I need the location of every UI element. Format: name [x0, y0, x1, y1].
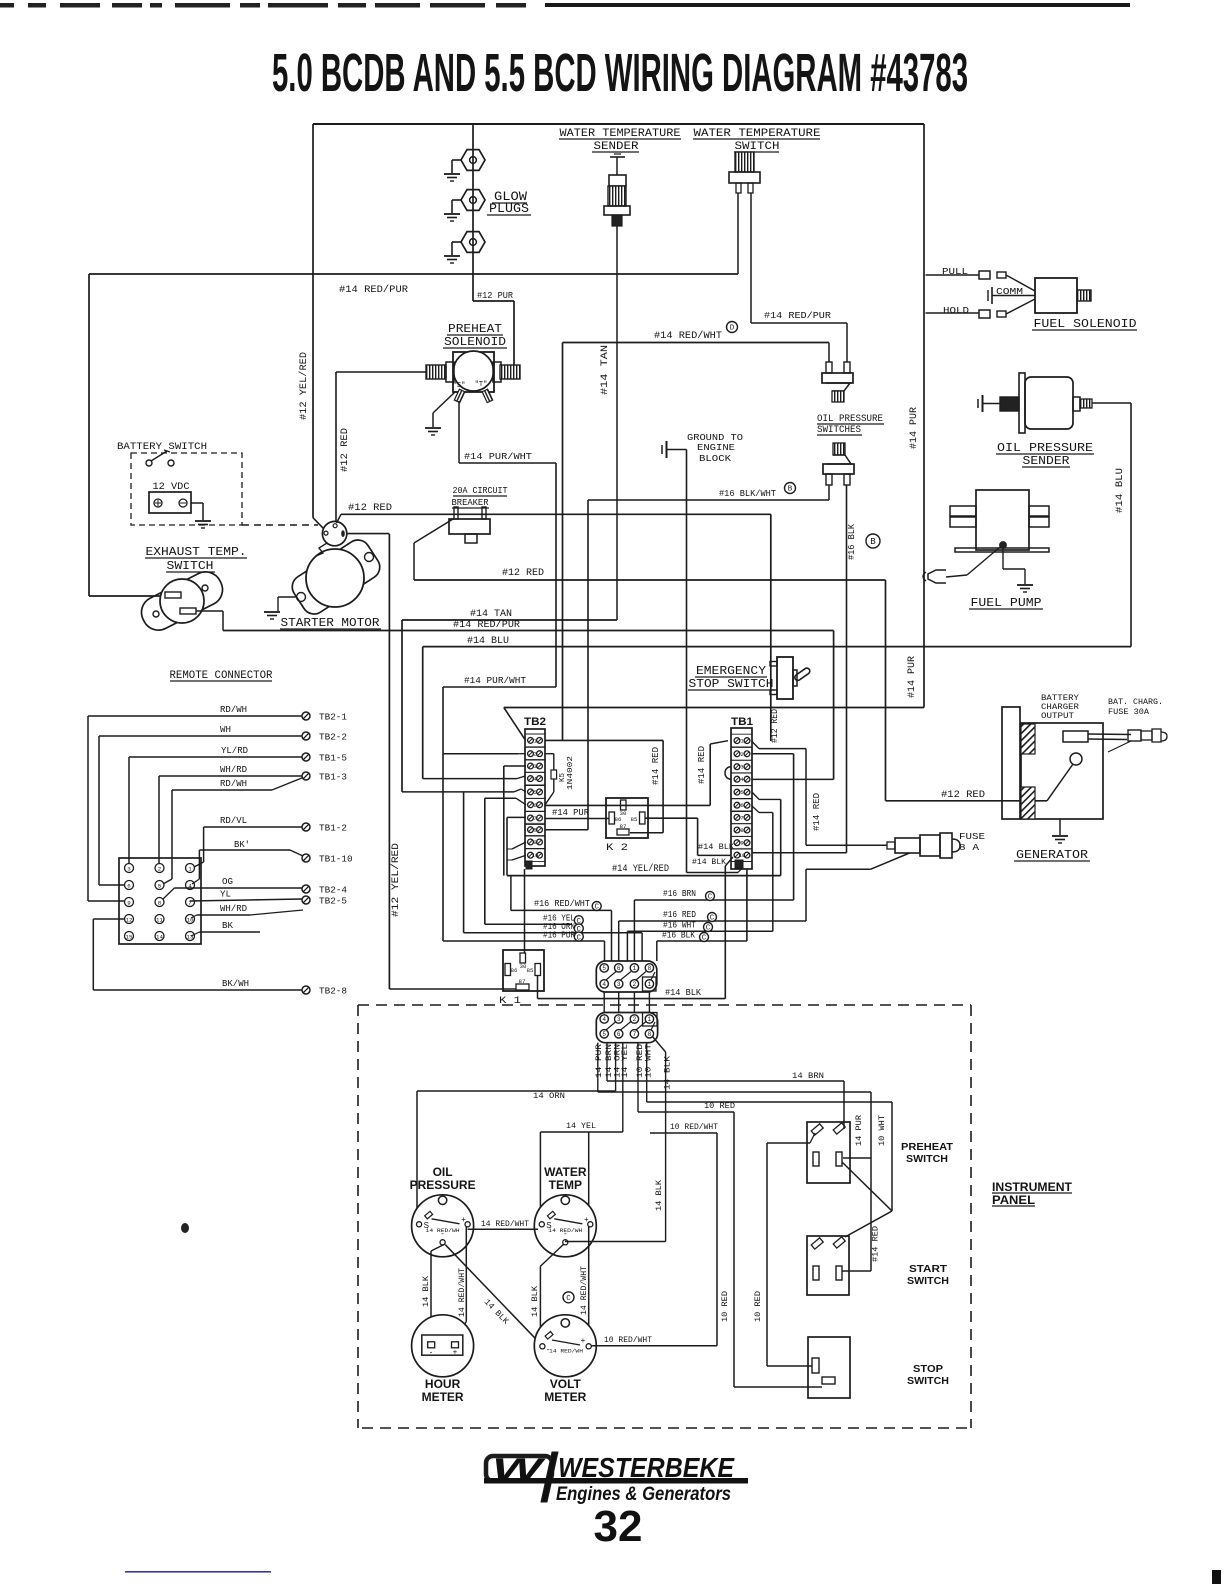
svg-text:86: 86: [615, 816, 622, 823]
wire TB2-6 to TB1-1 (through K2-30): [545, 741, 728, 806]
svg-text:14 ORN: 14 ORN: [533, 1091, 565, 1101]
svg-text:7: 7: [533, 815, 536, 822]
wire #14 BLU (sender lead): [1092, 403, 1131, 647]
wire #12 RED (starter to breaker to TB1-1): [337, 503, 781, 743]
wire WH (TB2-2): [99, 725, 302, 885]
svg-text:#14 RED: #14 RED: [697, 746, 707, 784]
wire 10 RED to stop switch: [638, 1101, 822, 1387]
wire #14 PUR TB2-7 to K2-86: [545, 807, 609, 819]
svg-text:HOUR: HOUR: [425, 1377, 461, 1391]
svg-text:SWITCH: SWITCH: [906, 1153, 948, 1165]
svg-text:85: 85: [631, 816, 638, 823]
svg-text:BLOCK: BLOCK: [699, 453, 731, 464]
wires connector pass-through: [604, 992, 649, 1013]
water temp gauge: [534, 1165, 596, 1257]
svg-text:#14 YEL/RED: #14 YEL/RED: [612, 863, 669, 875]
svg-text:10 RED: 10 RED: [704, 1101, 735, 1111]
svg-text:10 RED: 10 RED: [753, 1291, 763, 1322]
wire #14 RED/WHT: [563, 322, 830, 741]
svg-text:14 RED/WHT: 14 RED/WHT: [481, 1219, 529, 1229]
wire #14 BLU: [423, 636, 1131, 779]
svg-text:STOP: STOP: [913, 1363, 943, 1375]
wire #14 RED/PUR top (y=274): [89, 274, 738, 296]
svg-text:C: C: [710, 915, 715, 923]
svg-text:14 BLK: 14 BLK: [663, 1055, 673, 1090]
wire #16 WHT: [627, 806, 772, 961]
svg-text:METER: METER: [422, 1390, 464, 1404]
remote connector: [119, 670, 273, 944]
svg-text:TB1: TB1: [731, 716, 753, 728]
wire TB2-7 down (#14 YEL/RED feed): [507, 817, 526, 875]
svg-text:4: 4: [602, 981, 606, 988]
svg-text:#12 RED: #12 RED: [348, 503, 392, 514]
emergency stop switch: [688, 657, 811, 699]
svg-text:FUSE: FUSE: [959, 831, 985, 842]
wire #16 YEL: [485, 913, 584, 926]
svg-text:TB2-5: TB2-5: [319, 897, 347, 907]
svg-text:METER: METER: [544, 1390, 586, 1404]
svg-text:SWITCH: SWITCH: [907, 1275, 949, 1287]
Westerbeke logo: [484, 1452, 748, 1505]
svg-text:9: 9: [127, 899, 131, 906]
wire #12 RED (y=580 run to generator): [414, 568, 1047, 801]
wire #14 PUR/WHT drop to TB2-2: [443, 687, 525, 941]
svg-text:TB1-2: TB1-2: [319, 824, 347, 834]
wire #14 RED label: [871, 1226, 881, 1262]
wire TB2-3 stub down: [504, 766, 526, 876]
wire #14 RED/PUR (y=630.5): [223, 619, 834, 779]
svg-text:B: B: [870, 537, 876, 547]
fuel pump: [923, 490, 1049, 610]
wire #14 RED/PUR (water temp switch to oil pressure switch): [751, 193, 847, 362]
exhaust temperature switch: [136, 546, 247, 636]
wire #16 ORN: [464, 921, 642, 961]
svg-text:+: +: [461, 1215, 466, 1224]
svg-text:RD/WH: RD/WH: [220, 705, 247, 715]
svg-text:D: D: [730, 325, 735, 333]
svg-text:#14 PUR: #14 PUR: [909, 407, 920, 449]
wire #12 RED (preheat stub to starter): [336, 372, 426, 524]
wire K1-30 up (from TB2 bottom stub): [524, 869, 526, 953]
svg-text:#12 YEL/RED: #12 YEL/RED: [298, 352, 310, 420]
svg-text:#12 RED: #12 RED: [340, 428, 351, 472]
svg-text:20A CIRCUIT: 20A CIRCUIT: [453, 485, 508, 496]
wire engine harness top edge (y=124): [313, 123, 924, 125]
wire TB1-4 from #14 RED/PUR: [752, 778, 834, 780]
svg-text:PREHEAT: PREHEAT: [448, 323, 502, 336]
oil pressure switches: [817, 362, 884, 485]
svg-text:OIL PRESSURE: OIL PRESSURE: [997, 442, 1093, 455]
wire YL/RD (TB1-5): [129, 746, 302, 863]
glow plugs: [444, 124, 531, 301]
wire 14 YEL: [540, 1121, 622, 1219]
svg-text:#14 BLU: #14 BLU: [467, 636, 509, 647]
svg-text:GENERATOR: GENERATOR: [1016, 848, 1088, 862]
svg-text:14 BLK: 14 BLK: [654, 1179, 664, 1211]
scan artifact: torn top edge marks: [0, 3, 1130, 8]
svg-text:#14 RED: #14 RED: [812, 793, 822, 831]
svg-text:5.0 BCDB AND 5.5 BCD WIRING DI: 5.0 BCDB AND 5.5 BCD WIRING DIAGRAM #437…: [272, 43, 968, 103]
svg-text:32: 32: [594, 1502, 643, 1551]
svg-text:3: 3: [533, 763, 536, 770]
svg-text:#14 RED: #14 RED: [651, 747, 661, 785]
svg-text:SWITCH: SWITCH: [907, 1375, 949, 1387]
instrument panel connector leads: [594, 1036, 673, 1242]
wire TB2-1 bus to K2-87 drop: [504, 708, 663, 741]
svg-text:14 YEL: 14 YEL: [566, 1121, 596, 1131]
svg-text:REMOTE CONNECTOR: REMOTE CONNECTOR: [170, 670, 274, 682]
svg-text:#12 RED: #12 RED: [502, 568, 544, 579]
svg-text:6: 6: [533, 802, 536, 809]
svg-text:WH/RD: WH/RD: [220, 904, 247, 914]
wire WH/RD (to pin 10): [191, 904, 303, 918]
svg-text:2: 2: [533, 751, 536, 758]
wire RD/WH (to pin 5): [163, 778, 303, 885]
svg-text:START: START: [909, 1263, 948, 1275]
wire #12 RED starter solenoid branch: [346, 533, 389, 535]
svg-text:K5: K5: [559, 772, 567, 782]
svg-text:+: +: [584, 1215, 589, 1224]
svg-text:Engines & Generators: Engines & Generators: [556, 1484, 731, 1505]
svg-text:14 BLK: 14 BLK: [421, 1275, 431, 1307]
svg-text:OG: OG: [222, 877, 233, 887]
terminal block TB2: [524, 716, 546, 869]
wire BK' (TB1-10): [192, 840, 303, 884]
remote connector terminal screws: [302, 712, 353, 997]
svg-text:C: C: [706, 925, 711, 933]
svg-text:5: 5: [602, 1031, 606, 1038]
wire start switch to #14 RED: [842, 1270, 871, 1272]
wire #14 TAN to TB2-5: [402, 789, 526, 792]
svg-text:8: 8: [648, 1031, 652, 1038]
svg-text:FUEL PUMP: FUEL PUMP: [971, 597, 1042, 610]
svg-text:14 RED/WH: 14 RED/WH: [549, 1348, 583, 1355]
svg-text:#14 TAN: #14 TAN: [600, 345, 611, 395]
svg-text:WATER: WATER: [544, 1165, 587, 1179]
fuse 8A: [806, 831, 985, 921]
svg-text:YL/RD: YL/RD: [221, 746, 248, 756]
svg-text:PANEL: PANEL: [992, 1195, 1035, 1207]
wire RD/VL (TB1-2): [194, 816, 302, 867]
wire #16 YEL branch TB2-6: [485, 798, 526, 924]
svg-text:#16 BRN: #16 BRN: [663, 888, 696, 899]
svg-text:1: 1: [648, 981, 652, 988]
svg-text:8 A: 8 A: [959, 842, 979, 853]
ground to engine block: [662, 432, 743, 464]
svg-text:2: 2: [633, 981, 637, 988]
wire TB1-1 to fuse 8A: [752, 742, 822, 846]
svg-text:C: C: [702, 935, 707, 943]
wire #12 YEL/RED left edge (x=313): [298, 124, 326, 531]
svg-text:TB2-2: TB2-2: [319, 733, 347, 743]
svg-text:#14 RED/PUR: #14 RED/PUR: [453, 619, 520, 631]
svg-text:PLUGS: PLUGS: [489, 202, 529, 216]
relay K1: [499, 950, 544, 1007]
svg-text:14 YEL: 14 YEL: [620, 1044, 630, 1078]
wire #16 BLK (oil switch to TB1-10): [847, 485, 881, 853]
wire 14 BLK diagonal to volt meter: [445, 1245, 542, 1346]
svg-text:10 RED: 10 RED: [720, 1291, 730, 1322]
svg-text:#16 RED: #16 RED: [663, 909, 696, 920]
svg-text:#14 RED/WHT: #14 RED/WHT: [654, 330, 722, 342]
svg-text:OIL: OIL: [433, 1165, 453, 1179]
wire 14 BRN: [607, 1071, 844, 1129]
svg-text:#14 PUR: #14 PUR: [907, 656, 918, 698]
wire OG (TB2-4): [163, 877, 302, 899]
wire #16 RED/WHT: [511, 876, 612, 961]
wire #14 PUR/WHT jog: [443, 451, 556, 687]
wire #16 PUR: [443, 929, 604, 961]
wire #16 RED: [619, 909, 806, 961]
svg-text:7: 7: [633, 1031, 637, 1038]
connector (instrument panel side): [596, 1013, 657, 1043]
scan artifact: stray dot left margin: [181, 1223, 189, 1233]
svg-text:SENDER: SENDER: [1023, 455, 1070, 468]
svg-text:TEMP: TEMP: [549, 1178, 582, 1192]
svg-text:6: 6: [740, 802, 743, 809]
wire preheat S to #14 PUR/WHT: [458, 401, 460, 463]
svg-text:SOLENOID: SOLENOID: [444, 336, 506, 349]
wire BK/WH (TB2-8): [93, 919, 302, 990]
scan artifact: bottom-right black bar: [1212, 1570, 1221, 1584]
wire #14 PUR (fuel solenoid feed / right edge): [909, 124, 924, 708]
diode K5 1N4002: [545, 754, 575, 805]
oil pressure gauge: [410, 1165, 476, 1257]
svg-text:14 PUR: 14 PUR: [854, 1115, 864, 1146]
svg-text:B: B: [788, 486, 793, 494]
svg-text:8: 8: [648, 965, 652, 972]
svg-text:-: -: [430, 1348, 433, 1357]
svg-text:#12 YEL/RED: #12 YEL/RED: [390, 843, 402, 917]
wire #12 YEL/RED to K1: [389, 534, 516, 989]
instrument panel dashed border: [358, 1005, 971, 1428]
terminal block TB1: [725, 716, 753, 869]
page number 32: [594, 1502, 643, 1551]
wire #14 BLK (K1-85 to TB1): [538, 976, 726, 999]
svg-text:14 BLK: 14 BLK: [530, 1285, 540, 1317]
svg-text:85: 85: [527, 967, 534, 974]
svg-text:8: 8: [740, 827, 743, 834]
preheat switch: [807, 1122, 954, 1183]
hour meter: [412, 1315, 474, 1404]
svg-text:#16 BLK/WHT: #16 BLK/WHT: [719, 488, 776, 499]
wire #16 BRN: [634, 888, 793, 961]
wire #16 ORN branch: [463, 792, 465, 933]
svg-text:#16 BLK: #16 BLK: [847, 523, 857, 560]
svg-text:PRESSURE: PRESSURE: [410, 1178, 476, 1192]
wire 14 PUR to preheat switch: [598, 1092, 871, 1271]
svg-text:C: C: [708, 894, 713, 902]
water temperature switch: [693, 128, 821, 193]
wire 14 RED/WHT oil to hour meter: [455, 1226, 467, 1339]
svg-text:SENDER: SENDER: [594, 141, 639, 153]
wire left boundary to exhaust switch: [89, 274, 162, 596]
svg-text:TB1-10: TB1-10: [319, 855, 353, 865]
wire YL (TB2-5): [190, 890, 302, 902]
svg-text:#14 PUR/WHT: #14 PUR/WHT: [464, 675, 526, 686]
wire BK (pin 13): [191, 921, 260, 936]
water temperature sender: [559, 128, 681, 226]
svg-text:+: +: [581, 1336, 586, 1345]
svg-text:TB2-8: TB2-8: [319, 987, 347, 997]
svg-text:SWITCH: SWITCH: [735, 141, 780, 153]
svg-text:#14 TAN: #14 TAN: [470, 609, 512, 620]
svg-text:WATER TEMPERATURE: WATER TEMPERATURE: [694, 128, 821, 140]
svg-text:TB1-5: TB1-5: [319, 754, 347, 764]
wire RD/WH (TB2-1): [88, 705, 302, 901]
svg-text:10: 10: [532, 852, 539, 859]
svg-text:TB1-3: TB1-3: [319, 773, 347, 783]
wire 10 RED/WHT upper: [650, 1122, 718, 1346]
svg-text:3: 3: [127, 865, 131, 872]
wire TB1-10 from #16 BLK: [752, 852, 847, 854]
starter motor: [264, 521, 384, 630]
wire #14 PUR (fuel pump to TB2-1 bus): [504, 656, 924, 708]
svg-text:5: 5: [602, 965, 606, 972]
svg-text:#16 PUR: #16 PUR: [543, 929, 575, 940]
svg-text:2: 2: [740, 751, 743, 758]
svg-text:7: 7: [740, 814, 743, 821]
svg-text:STARTER MOTOR: STARTER MOTOR: [281, 617, 380, 630]
svg-text:1: 1: [188, 865, 192, 872]
wire #16 BLK: [657, 930, 747, 962]
svg-text:12: 12: [126, 916, 133, 923]
svg-text:VOLT: VOLT: [550, 1377, 582, 1391]
wire #14 YEL/RED: [507, 863, 781, 876]
svg-text:6: 6: [127, 882, 131, 889]
wire TB1-5 to #14 YEL/RED: [752, 792, 781, 876]
svg-text:2: 2: [633, 1016, 637, 1023]
wire 14 ORN: [417, 1091, 616, 1219]
svg-text:TB2-4: TB2-4: [319, 886, 347, 896]
svg-text:1N4002: 1N4002: [567, 756, 575, 790]
svg-text:11: 11: [156, 916, 163, 923]
wire 10 RED (second drop): [753, 1133, 815, 1366]
svg-text:3: 3: [617, 1016, 621, 1023]
svg-text:14 RED/WHT: 14 RED/WHT: [457, 1268, 467, 1317]
svg-text:10 RED/WHT: 10 RED/WHT: [670, 1122, 718, 1132]
svg-text:15: 15: [126, 933, 133, 940]
wire 14 RED/WHT between gauges: [468, 1219, 538, 1229]
svg-text:14 PUR: 14 PUR: [594, 1044, 604, 1078]
svg-text:#16 BLK: #16 BLK: [662, 930, 695, 941]
svg-text:14 RED/WH: 14 RED/WH: [548, 1227, 582, 1234]
svg-text:#14 BLU: #14 BLU: [1115, 468, 1126, 513]
svg-text:BK: BK: [222, 921, 234, 931]
svg-text:#14 BLK: #14 BLK: [698, 842, 735, 852]
wire #14 TAN: [402, 609, 617, 792]
relay K2: [606, 798, 648, 854]
svg-text:#12 PUR: #12 PUR: [477, 290, 513, 301]
svg-text:#14 PUR: #14 PUR: [552, 807, 589, 818]
svg-text:#14 RED/PUR: #14 RED/PUR: [339, 284, 408, 296]
wire #14 BLU to TB2-4: [423, 776, 525, 779]
svg-text:BATTERY SWITCH: BATTERY SWITCH: [117, 441, 207, 453]
wire 14 RED/WHT water to volt meter: [563, 1226, 589, 1344]
svg-text:RD/VL: RD/VL: [220, 816, 247, 826]
svg-text:BK': BK': [234, 840, 250, 850]
wire TB1-2 to #16 BRN: [752, 754, 794, 900]
svg-text:BK/WH: BK/WH: [222, 979, 249, 989]
wire #12 PUR: [473, 290, 514, 366]
svg-text:#12 RED: #12 RED: [941, 790, 985, 801]
svg-text:6: 6: [617, 965, 621, 972]
svg-text:BAT. CHARG.: BAT. CHARG.: [1108, 697, 1163, 707]
svg-text:10 WHT: 10 WHT: [644, 1044, 654, 1078]
svg-text:FUEL SOLENOID: FUEL SOLENOID: [1034, 318, 1137, 331]
svg-text:#16 RED/WHT: #16 RED/WHT: [534, 898, 590, 909]
svg-text:10 WHT: 10 WHT: [877, 1115, 887, 1146]
svg-text:6: 6: [617, 1031, 621, 1038]
svg-text:#14 PUR/WHT: #14 PUR/WHT: [464, 451, 532, 462]
wire 14 BLK water to volt meter: [530, 1244, 564, 1343]
svg-text:INSTRUMENT: INSTRUMENT: [992, 1182, 1072, 1194]
wire 14 BLK oil to hour meter: [421, 1244, 445, 1339]
wire 14 BLK panel drop: [589, 1132, 664, 1224]
instrument panel label: [992, 1182, 1072, 1207]
battery switch and 12 VDC battery: [117, 441, 318, 528]
wire exhaust switch to #14 RED/PUR: [196, 611, 223, 631]
wire #14 RED (K2-87): [630, 740, 663, 832]
svg-text:WATER TEMPERATURE: WATER TEMPERATURE: [560, 128, 681, 140]
svg-text:EXHAUST TEMP.: EXHAUST TEMP.: [146, 546, 247, 559]
wire 14 BLK return: [565, 1241, 666, 1243]
svg-text:FUSE 30A: FUSE 30A: [1108, 707, 1150, 717]
svg-text:5: 5: [740, 789, 743, 796]
wire preheat bottom-right diagonal: [842, 1162, 892, 1211]
svg-text:#12 RED: #12 RED: [770, 709, 780, 743]
svg-text:RD/WH: RD/WH: [220, 779, 247, 789]
svg-text:10 RED/WHT: 10 RED/WHT: [604, 1335, 652, 1345]
stop switch: [808, 1337, 949, 1398]
svg-text:C: C: [577, 934, 582, 942]
svg-text:TB2: TB2: [524, 716, 546, 728]
wire ground-block vertical to TB1-11 stub: [687, 450, 744, 873]
svg-text:#14 BLK: #14 BLK: [665, 987, 701, 998]
svg-text:WH: WH: [220, 725, 231, 735]
svg-text:ENGINE: ENGINE: [697, 442, 735, 453]
wire water temp switch left pin: [737, 193, 739, 274]
start switch: [807, 1236, 949, 1295]
generator with battery charger output: [1002, 693, 1163, 862]
svg-text:5: 5: [533, 789, 536, 796]
svg-text:+: +: [453, 1348, 458, 1357]
wire #16 BLK/WHT: [545, 483, 829, 830]
svg-text:86: 86: [511, 967, 518, 974]
svg-text:3: 3: [740, 764, 743, 771]
preheat solenoid: [425, 323, 520, 435]
volt meter: [534, 1315, 596, 1404]
svg-text:5: 5: [158, 882, 162, 889]
svg-text:#14 RED/PUR: #14 RED/PUR: [764, 310, 831, 321]
svg-text:1: 1: [633, 965, 637, 972]
scan artifact: blue underline bottom-left: [125, 1571, 271, 1573]
svg-text:TB2-1: TB2-1: [319, 713, 347, 723]
svg-text:9: 9: [740, 840, 743, 847]
svg-text:1: 1: [648, 1016, 652, 1023]
wire #14 TAN vertical (sender lead): [600, 226, 617, 620]
svg-text:4: 4: [602, 1016, 606, 1023]
svg-text:10: 10: [739, 852, 746, 859]
connector (engine harness side): [596, 961, 657, 992]
svg-text:14 RED/WH: 14 RED/WH: [426, 1227, 460, 1234]
svg-text:OUTPUT: OUTPUT: [1041, 711, 1074, 721]
svg-text:#14 RED: #14 RED: [871, 1226, 881, 1262]
svg-text:14 BRN: 14 BRN: [792, 1071, 824, 1081]
wire WH/RD (TB1-3): [159, 765, 302, 863]
wire #16 BLK to TB1 bottom: [746, 869, 748, 941]
svg-text:PREHEAT: PREHEAT: [901, 1141, 954, 1153]
